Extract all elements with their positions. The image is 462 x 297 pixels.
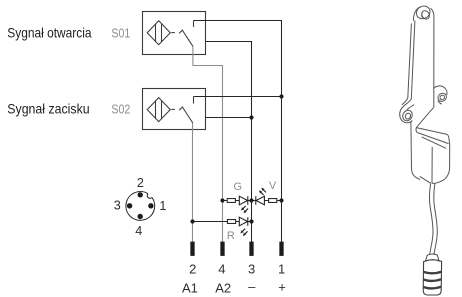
M8 connector face circle with notch (126, 192, 155, 221)
terminal number 2 (189, 261, 196, 276)
S02 switch (171, 107, 193, 124)
terminal pin 4 (220, 242, 224, 256)
LED G (239, 196, 248, 213)
wire S01 top to pin1 (+) (194, 21, 282, 242)
sensor S01 box (143, 12, 206, 55)
connector pin dot bottom (4) (138, 214, 143, 219)
svg-text:A2: A2 (215, 280, 231, 295)
device illustration: block top hook (434, 86, 449, 104)
resistor in R row (227, 220, 235, 224)
svg-text:4: 4 (218, 261, 225, 276)
wire G-LED row (223, 200, 252, 202)
connector number 3 (114, 199, 121, 213)
terminal label minus (248, 279, 256, 294)
svg-text:2: 2 (137, 176, 144, 190)
svg-text:V: V (269, 180, 277, 192)
connector number 4 (135, 224, 142, 238)
svg-text:1: 1 (159, 199, 166, 213)
junction G-row left on pin4 wire (220, 198, 224, 202)
svg-text:S02: S02 (111, 102, 130, 117)
connector number 2 (137, 176, 144, 190)
device illustration: lower foot rolled hook (400, 98, 414, 123)
wire R-LED row (193, 221, 252, 223)
label S01 (111, 25, 130, 40)
device illustration: cable (429, 183, 437, 255)
junction R-row right on pin3 wire (249, 219, 253, 223)
svg-text:+: + (278, 280, 286, 295)
terminal number 3 (248, 261, 255, 276)
svg-text:G: G (234, 181, 243, 193)
device illustration: mounting strip top eyelet (414, 4, 432, 22)
S01 common stub (193, 21, 195, 28)
wire S02 output to pin2 (gray) (192, 123, 194, 242)
terminal pin 1 (279, 242, 283, 256)
S01 proximity-sensor diamond (147, 21, 170, 45)
terminal label A2 (215, 280, 231, 295)
label Sygnal otwarcia (7, 25, 92, 40)
svg-text:3: 3 (114, 199, 121, 213)
svg-text:Sygnał otwarcia: Sygnał otwarcia (7, 25, 92, 40)
device illustration: connector collar (426, 254, 440, 261)
connector pin dot right (1) (148, 203, 153, 208)
label S02 (111, 102, 130, 117)
svg-text:2: 2 (189, 261, 196, 276)
S02 common stub (193, 97, 195, 104)
terminal pin 3 (249, 242, 253, 256)
junction V-row right on pin1 wire (279, 198, 283, 202)
connector pin dot left (3) (127, 203, 132, 208)
junction R-row left on pin2 wire (190, 219, 194, 223)
svg-text:A1: A1 (182, 280, 198, 295)
device illustration: connector body with ribs (423, 260, 441, 295)
S01 switch (171, 30, 193, 47)
wire S02 top to + wire (194, 96, 282, 98)
junction G/V on pin3 wire (249, 198, 253, 202)
svg-text:–: – (248, 279, 256, 294)
svg-text:S01: S01 (111, 25, 130, 40)
wire S02 middle to - wire (206, 117, 252, 119)
terminal label plus (278, 280, 286, 295)
device illustration: strip body (408, 7, 434, 108)
wire V-LED row (252, 200, 282, 202)
junction S02-top / pin1 wire (279, 94, 283, 98)
svg-text:Sygnał zacisku: Sygnał zacisku (7, 102, 89, 117)
label G (234, 181, 243, 193)
resistor in G row (227, 199, 235, 203)
svg-text:4: 4 (135, 224, 142, 238)
terminal number 4 (218, 261, 225, 276)
terminal number 1 (278, 261, 285, 276)
resistor in V row (269, 199, 277, 203)
wire S01 middle to pin3 (-) (206, 42, 252, 242)
sensor S02 box (143, 89, 206, 130)
device illustration: sensor block (411, 107, 450, 183)
LED V (256, 188, 266, 205)
label V (269, 180, 277, 192)
terminal pin 2 (190, 242, 194, 256)
connector number 1 (159, 199, 166, 213)
label Sygnal zacisku (7, 102, 89, 117)
svg-text:1: 1 (278, 261, 285, 276)
svg-text:R: R (227, 230, 235, 242)
S02 proximity-sensor diamond (147, 98, 170, 122)
junction S02-middle / pin3 wire (249, 115, 253, 119)
connector pin dot top (2) (138, 192, 143, 197)
svg-text:3: 3 (248, 261, 255, 276)
label R (227, 230, 235, 242)
wire S01 output to pin4 (gray) (193, 46, 223, 242)
LED R (239, 217, 248, 236)
terminal label A1 (182, 280, 198, 295)
